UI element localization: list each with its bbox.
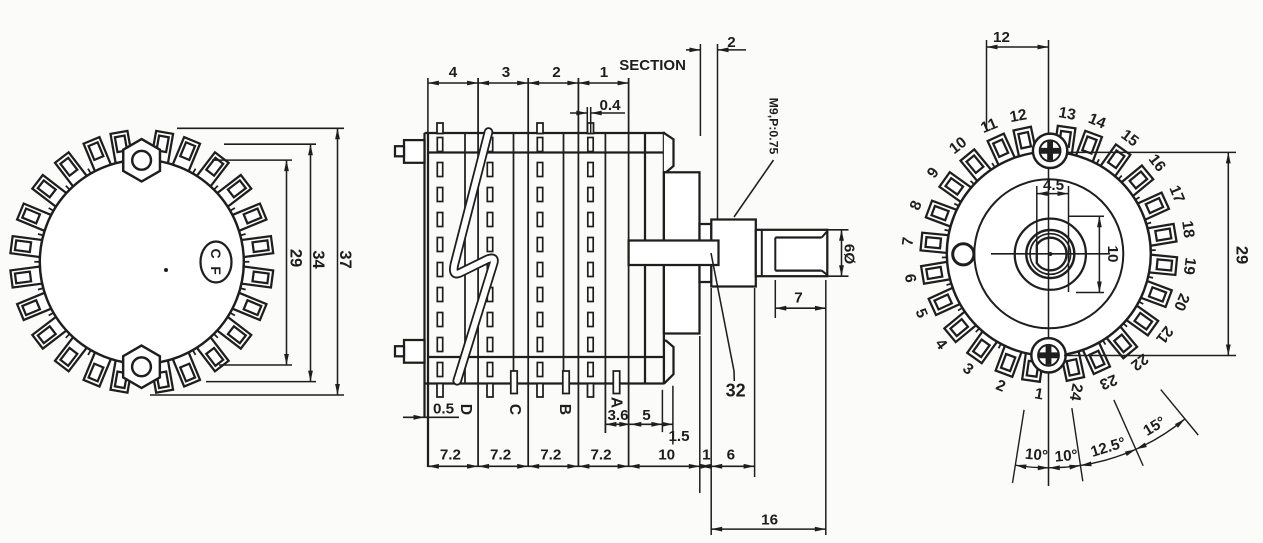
middle view: dim 16 — [711, 512, 826, 532]
right view: locating pin — [953, 244, 974, 265]
svg-text:C: C — [208, 248, 224, 258]
middle view: section dim line 4 3 2 1 — [428, 81, 629, 86]
svg-text:16: 16 — [761, 512, 778, 529]
middle view: right end plate line — [663, 132, 665, 384]
svg-text:5: 5 — [912, 306, 931, 321]
svg-text:11: 11 — [978, 115, 1000, 137]
left view: solder lug tab at 37.5 deg — [217, 317, 251, 349]
right view: dim 10 — [1069, 216, 1122, 292]
right view: terminal tab 19 — [1147, 255, 1177, 275]
right view: dim 12 — [987, 29, 1049, 128]
middle view: dim 7 shaft flat — [775, 280, 826, 318]
middle view: chamfered end cap — [664, 133, 674, 172]
svg-text:13: 13 — [1057, 104, 1077, 124]
svg-text:6: 6 — [727, 447, 735, 464]
svg-text:10: 10 — [1104, 246, 1121, 263]
middle view: bottom dim labels — [440, 447, 735, 464]
svg-text:M9,P:0.75: M9,P:0.75 — [767, 98, 781, 155]
left view: solder lug tab at 232.5 deg — [55, 152, 87, 186]
right view: terminal tab 1 — [1022, 352, 1044, 382]
middle view: detent spring zigzag — [454, 132, 494, 381]
left view: solder lug tab at 142.5 deg — [32, 317, 66, 349]
left view: dim 29 extension lines — [212, 160, 292, 365]
middle view: dim 3.6 and 5 and 1.5 — [605, 386, 690, 445]
svg-text:6Ø: 6Ø — [841, 244, 858, 264]
left view: solder lug tab at 22.5 deg — [232, 293, 266, 320]
left view: solder lug tab at 80 deg — [151, 360, 173, 393]
left view: solder lug tab at 307.5 deg — [197, 152, 229, 186]
right view: terminal tab 23 — [1082, 341, 1110, 374]
right view: terminal tab 22 — [1106, 325, 1138, 358]
svg-text:8: 8 — [907, 198, 926, 213]
left view: CF marking oval — [201, 242, 232, 283]
svg-text:2: 2 — [993, 377, 1007, 396]
svg-text:10: 10 — [946, 134, 970, 158]
svg-text:SECTION: SECTION — [619, 57, 686, 74]
middle view: section labels 4 3 2 1 — [449, 64, 609, 81]
left view: solder lug tab at 7.5 deg — [241, 266, 273, 287]
left view: gap index stubs on body circle — [34, 169, 249, 355]
middle view: wafer stack outline — [425, 133, 664, 467]
left view: solder lug tab at 217.5 deg — [32, 175, 66, 207]
right view: terminal tab 14 — [1075, 131, 1101, 163]
right view: shaft middle circle — [1030, 234, 1071, 275]
right view: gap index stubs — [942, 159, 1156, 348]
middle view: top terminal lugs — [437, 123, 594, 134]
svg-text:18: 18 — [1178, 220, 1197, 240]
svg-text:2: 2 — [727, 34, 735, 51]
left view: 24 solder-lug tabs around body — [10, 131, 273, 393]
right view: outer body circle — [947, 152, 1151, 356]
svg-text:F: F — [208, 266, 224, 275]
left view: solder lug tab at 352.5 deg — [241, 236, 273, 257]
middle view: dim 0.4 terminal thickness — [570, 97, 625, 133]
svg-text:32: 32 — [726, 381, 746, 401]
svg-text:10°: 10° — [1054, 447, 1078, 466]
svg-text:1: 1 — [702, 447, 711, 464]
svg-text:10: 10 — [658, 447, 675, 464]
middle view: bottom extension lines — [700, 280, 826, 535]
middle view: bottom chained dim line 7.2 x4 10 1 6 — [428, 464, 755, 469]
right view: center dot — [1048, 252, 1052, 256]
left view: solder lug tab at 260 deg — [111, 131, 133, 164]
svg-text:21: 21 — [1152, 323, 1176, 347]
svg-text:5: 5 — [642, 407, 651, 424]
svg-text:1: 1 — [600, 64, 609, 81]
right view: terminal tab 16 — [1120, 166, 1153, 198]
right view: angle fan extension lines — [1013, 390, 1199, 483]
right view: terminal tab 20 — [1139, 280, 1171, 306]
svg-text:20: 20 — [1170, 291, 1192, 313]
svg-text:7.2: 7.2 — [540, 447, 561, 464]
svg-text:7: 7 — [794, 290, 802, 307]
svg-text:3.6: 3.6 — [607, 407, 628, 424]
right view: terminal tab 18 — [1146, 224, 1177, 246]
svg-text:14: 14 — [1086, 110, 1109, 132]
middle view: left tie-rod top — [395, 140, 425, 163]
left view: solder lug tab at 172.5 deg — [10, 266, 42, 287]
left view: solder lug tab at 157.5 deg — [17, 293, 51, 320]
svg-text:37: 37 — [336, 250, 354, 268]
left view: solder lug tab at 67.5 deg — [173, 352, 200, 386]
left view: bottom hex nut — [123, 346, 160, 388]
svg-text:1.5: 1.5 — [668, 428, 690, 445]
svg-text:7.2: 7.2 — [440, 447, 461, 464]
svg-text:B: B — [556, 404, 573, 415]
svg-text:22: 22 — [1127, 350, 1151, 374]
right view: inner rim circle — [974, 179, 1123, 328]
svg-text:2: 2 — [552, 64, 560, 81]
right view: vertical centerline — [1048, 40, 1050, 486]
right view: shaft D-flat circle — [1037, 238, 1067, 271]
svg-text:12: 12 — [993, 29, 1010, 46]
right view: terminal tab 12 — [1013, 127, 1036, 158]
left view: dim 34 extension lines — [206, 144, 316, 381]
svg-text:1: 1 — [1033, 385, 1045, 403]
svg-text:7.2: 7.2 — [590, 447, 611, 464]
svg-text:D: D — [457, 404, 474, 415]
right view: terminal tab 6 — [921, 262, 952, 284]
right view: terminal tab 8 — [926, 201, 958, 227]
right view: terminal tab 7 — [921, 233, 951, 253]
middle view: rotor shaft bar — [629, 241, 719, 266]
middle view: dashed terminal columns — [437, 138, 593, 377]
right view: angle arc arrowheads — [1015, 419, 1185, 470]
middle view: left tie-rod bottom — [395, 340, 425, 363]
right view: angle labels — [1024, 413, 1169, 465]
svg-text:0.4: 0.4 — [599, 97, 621, 114]
svg-text:9: 9 — [924, 164, 943, 181]
right view: terminal tab 4 — [944, 311, 977, 343]
right view: terminal tab 17 — [1136, 193, 1169, 221]
svg-text:17: 17 — [1165, 183, 1187, 205]
svg-text:19: 19 — [1180, 256, 1199, 276]
middle view: shaft — [756, 230, 828, 276]
svg-text:6: 6 — [901, 273, 919, 284]
svg-text:34: 34 — [309, 250, 327, 269]
right view: terminal tab 3 — [967, 330, 998, 363]
left view: solder lug tab at 100 deg — [111, 360, 133, 393]
right view: horizontal centerline — [991, 253, 1110, 255]
middle view: dim 6-dia label — [827, 230, 857, 276]
left view: solder lug tab at 112.5 deg — [84, 352, 111, 386]
middle view: threaded bushing M9 — [711, 220, 756, 287]
right view: angle dim arc — [1015, 419, 1185, 468]
right view: dim 4.5 — [1037, 177, 1069, 292]
right view: terminal tab 11 — [988, 134, 1016, 167]
svg-text:12: 12 — [1008, 106, 1028, 126]
middle view: dim 2 plate thickness — [686, 34, 746, 219]
middle view: bushing flange ring — [700, 224, 712, 282]
svg-text:4: 4 — [449, 64, 458, 81]
left view: solder lug tab at 322.5 deg — [217, 175, 251, 207]
left view: top hex nut — [123, 139, 160, 181]
middle view: mounting plate — [664, 172, 700, 333]
right view: shaft outer circle — [1026, 230, 1074, 278]
right view: terminal tab 13 — [1054, 126, 1076, 156]
left view: dim 34 line — [308, 144, 313, 381]
left view: solder lug tab at 337.5 deg — [232, 204, 266, 231]
middle view: bottom long terminal lugs — [437, 384, 594, 398]
middle view: wafer contact mid lines D C B A — [465, 133, 605, 433]
left view: main body circle (29 dia) — [40, 160, 244, 364]
right view: terminal tab 15 — [1100, 144, 1131, 177]
svg-text:3: 3 — [502, 64, 510, 81]
svg-text:7.2: 7.2 — [490, 447, 511, 464]
left view: solder lug tab at 52.5 deg — [197, 337, 229, 371]
right view: terminal tab 2 — [996, 344, 1022, 376]
right view: 24 terminal tabs — [921, 126, 1178, 382]
right view: terminal tab 5 — [929, 287, 962, 315]
right view: dim 29 line — [1226, 152, 1231, 355]
middle view: dim 0.5 wafer plate — [403, 401, 459, 420]
right view: screw extension lines for dim 29 — [1064, 152, 1236, 355]
svg-text:29: 29 — [1233, 246, 1251, 264]
left view: dim 37 extension lines — [150, 128, 344, 395]
middle view: label 32 with leader — [711, 253, 746, 401]
svg-text:24: 24 — [1066, 382, 1086, 402]
svg-text:23: 23 — [1097, 370, 1120, 392]
middle view: bottom short collector lugs — [511, 371, 620, 394]
svg-text:10°: 10° — [1024, 446, 1048, 465]
middle view: wafer letters D C B A — [457, 397, 624, 415]
svg-text:4.5: 4.5 — [1043, 177, 1065, 194]
right view: top mounting screw — [1033, 134, 1067, 168]
left view: solder lug tab at 127.5 deg — [55, 337, 87, 371]
right view: center boss circle (10 dia) — [1015, 219, 1086, 290]
svg-text:0.5: 0.5 — [433, 401, 455, 418]
svg-text:15°: 15° — [1140, 413, 1168, 439]
left view: solder lug tab at 247.5 deg — [84, 137, 111, 171]
left view: center pin dot — [164, 268, 168, 272]
middle view: M9 P0.75 thread label — [734, 98, 781, 217]
right view: bottom mounting screw — [1031, 338, 1065, 372]
svg-text:29: 29 — [287, 249, 305, 267]
svg-text:3: 3 — [959, 360, 976, 379]
right view: terminal number labels — [899, 104, 1198, 404]
left view: solder lug tab at 292.5 deg — [173, 137, 200, 171]
svg-text:7: 7 — [899, 236, 917, 247]
svg-text:12.5°: 12.5° — [1089, 434, 1128, 461]
right view: terminal tab 24 — [1061, 350, 1084, 381]
svg-text:C: C — [506, 404, 523, 415]
left view: solder lug tab at 202.5 deg — [17, 204, 51, 231]
svg-text:4: 4 — [931, 336, 950, 353]
svg-text:15: 15 — [1118, 126, 1142, 150]
right view: terminal tab 10 — [961, 149, 993, 182]
right view: terminal tab 21 — [1125, 305, 1158, 336]
middle view: right detent section line — [644, 133, 646, 384]
left view: solder lug tab at 280 deg — [151, 131, 173, 164]
left view: solder lug tab at 187.5 deg — [10, 236, 42, 257]
right view: terminal tab 9 — [939, 172, 972, 203]
left view: dim 29 line — [284, 160, 289, 365]
left view: dim 37 line — [335, 128, 340, 395]
middle view: wafer boundary lines — [428, 78, 629, 467]
